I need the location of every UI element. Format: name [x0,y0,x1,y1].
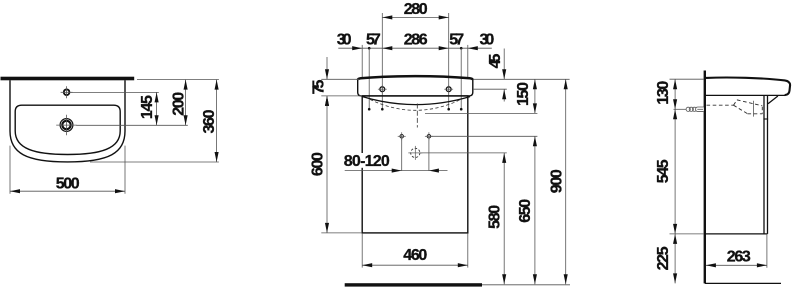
basin arched top edge (front view) [358,76,473,80]
right drain cross (front view) [425,132,433,140]
dimension 900 [548,79,567,284]
four mounting dots (front view) [368,108,463,111]
basin profile top edge (side view) [706,78,790,96]
left drain cross (front view) [398,132,406,140]
hidden bowl dashed lines (side view) [707,100,763,117]
dimension 286 arrows [382,32,448,109]
right 57 dot and extension [449,32,464,109]
dimension 75 left (outside arrows) [311,57,360,106]
dimension 130 [655,79,677,109]
fixing hole extension line to right [473,88,507,90]
dimension 650 [517,136,537,284]
basin profile bottom edge (side view) [706,94,785,96]
drain hole circle with center cross [56,115,76,136]
washbasin outer outline (top view) [10,80,125,162]
extension line from drain crosses to dim 650 [431,135,537,137]
dimension 200 (rear edge to drain) [170,80,187,126]
center line dashed (front view) [416,104,418,128]
left 30 arrow and tick [337,32,363,78]
extension line from basin bottom to dim 360 [90,161,219,163]
extension lines for dim 460 [362,233,468,267]
dimension 580 [487,153,507,284]
extension line from rear bar to dim 360 [137,79,219,81]
dimension 280 (top row) [382,1,448,48]
svg-text:650: 650 [517,199,534,223]
svg-text:30: 30 [337,32,352,49]
bracket diagonal (side view) [768,96,778,104]
extension lines for dim 500 [10,146,125,194]
basin top extension line to right [473,78,570,80]
extension line at 150 bottom [425,112,537,114]
cabinet bottom extension line to left [321,232,362,234]
basin band outline (front view) [358,80,473,96]
right fixing hole (front view) [444,85,453,94]
dimension 360 (basin depth) [201,80,219,162]
svg-text:57: 57 [366,32,381,49]
right 30 arrow and tick [468,32,495,78]
cabinet bottom line (side view) [706,233,768,235]
svg-text:900: 900 [548,169,565,193]
dimension 150 right [515,79,537,113]
label 80-120 [344,153,390,170]
left 57 dot and extension [366,32,381,109]
dimension 225 [655,234,677,284]
svg-text:580: 580 [487,205,504,229]
svg-text:130: 130 [655,81,672,105]
left fixing hole (front view) [378,85,387,94]
svg-text:75: 75 [311,80,328,95]
dimension 80-120 line with outside arrows [345,139,448,173]
svg-text:45: 45 [487,54,504,69]
cabinet front double line (side view) [763,95,768,234]
svg-text:460: 460 [403,247,427,264]
svg-text:600: 600 [310,152,327,176]
extension line from drain to dim 200 [76,124,188,126]
washbasin rear edge bar (top view) [1,77,135,81]
svg-text:545: 545 [655,159,672,183]
floor bar (front view) [345,283,482,286]
white gap for 80-120 label [343,153,392,168]
basin top extension to left (side view) [670,78,705,80]
dimension 460 (cabinet width) [362,247,468,267]
dimension 45 (outside arrows) [487,49,506,102]
svg-text:280: 280 [404,1,428,18]
floor line (side view) [705,282,781,284]
svg-text:57: 57 [449,32,464,49]
extension line from water connection to dim 580 [420,152,507,154]
dimension row 30/57/286/57/30 baseline [338,47,492,49]
svg-text:263: 263 [727,248,751,265]
dimension 145 (faucet to drain) [139,92,159,125]
dimension 500 (basin width) [10,176,125,194]
svg-text:500: 500 [56,176,80,193]
svg-text:360: 360 [201,109,218,133]
svg-text:145: 145 [139,95,156,119]
dimension 545 [655,109,677,234]
floor extension line to right [482,284,570,286]
wall anchor bolt symbol (side view) [674,107,704,112]
faucet hole circle [61,86,73,98]
dimension 600 left (cabinet height) [310,96,329,233]
washbasin inner rim outline (top view) [15,105,120,154]
cabinet top extension line to left [321,95,362,97]
hidden bowl curve dashed (front view) [370,99,461,110]
svg-text:150: 150 [515,82,532,106]
wall line (side view) [704,71,706,284]
svg-text:30: 30 [480,32,495,49]
cabinet front extension down (side view) [766,234,768,268]
water connection dashed circle (front view) [408,146,422,160]
svg-text:80-120: 80-120 [344,153,390,170]
svg-text:200: 200 [170,92,187,116]
extension line from faucet hole to dim 145 [70,91,159,93]
dimension 263 (cabinet depth) [706,248,767,267]
cabinet outline (front view) [362,96,468,233]
bowl underside curve (front view) [363,97,471,105]
svg-text:286: 286 [404,32,428,49]
svg-text:225: 225 [655,246,672,270]
cabinet bottom extension to left (side view) [670,233,705,235]
